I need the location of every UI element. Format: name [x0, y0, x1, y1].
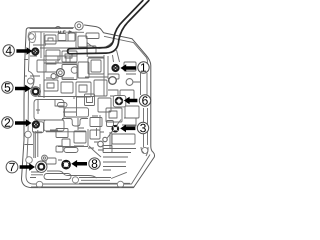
bolt B6 [113, 96, 126, 107]
callout 6 [139, 95, 150, 106]
callout 4 [3, 45, 14, 56]
top lug boss [75, 22, 83, 30]
border hole left lower [26, 157, 33, 164]
border hole right corner [142, 147, 148, 153]
border hole left below bolt2 [25, 131, 32, 138]
small double circle above bolt7 [42, 155, 48, 161]
callout 2 [2, 117, 13, 128]
arrow to bolt 8 [71, 160, 87, 168]
arrow to bolt 3 [120, 125, 135, 133]
boss around top-left hole [28, 32, 36, 43]
border hole top-left [29, 34, 35, 40]
bottom edge emphasis [31, 186, 134, 188]
bolt B7 [36, 161, 47, 172]
interior casting detail [24, 32, 148, 171]
bolt B2 [33, 122, 39, 128]
bolt B8 [63, 161, 70, 168]
interior check-ball circles [57, 69, 65, 77]
arrow to bolt 1 [120, 64, 136, 72]
bolt B4 [32, 49, 38, 55]
circle below bolt1 [109, 77, 117, 85]
callout 7 [6, 161, 18, 173]
border hole bottom right [117, 181, 123, 187]
border hole bottom-left corner [36, 181, 42, 187]
bottom flange tabs and lines [30, 171, 130, 183]
callout 8 [89, 158, 100, 169]
callout 3 [137, 122, 148, 133]
part outline outer [22, 25, 155, 188]
part outline inner flange [26, 32, 150, 184]
arrow to bolt 6 [124, 97, 138, 105]
callout 1 [138, 62, 149, 73]
arrow to bolt 5 [15, 85, 31, 93]
border hole bottom middle [72, 177, 78, 183]
circle below callout1 [126, 79, 133, 86]
bolt B5 [31, 87, 41, 97]
border hole left above bolt5 [28, 78, 34, 84]
casting marks [59, 31, 72, 34]
top edge bump [56, 26, 61, 27]
arrow to bolt 7 [20, 163, 35, 171]
dipstick tube [68, 0, 150, 54]
arrow to bolt 4 [16, 47, 32, 55]
bolt B3 [113, 126, 119, 132]
callout 5 [2, 82, 13, 93]
arrow to bolt 2 [15, 119, 32, 127]
bolt B1 [113, 65, 119, 71]
top edge emphasis [30, 27, 74, 29]
small circle pair mid-bottom [98, 141, 104, 147]
